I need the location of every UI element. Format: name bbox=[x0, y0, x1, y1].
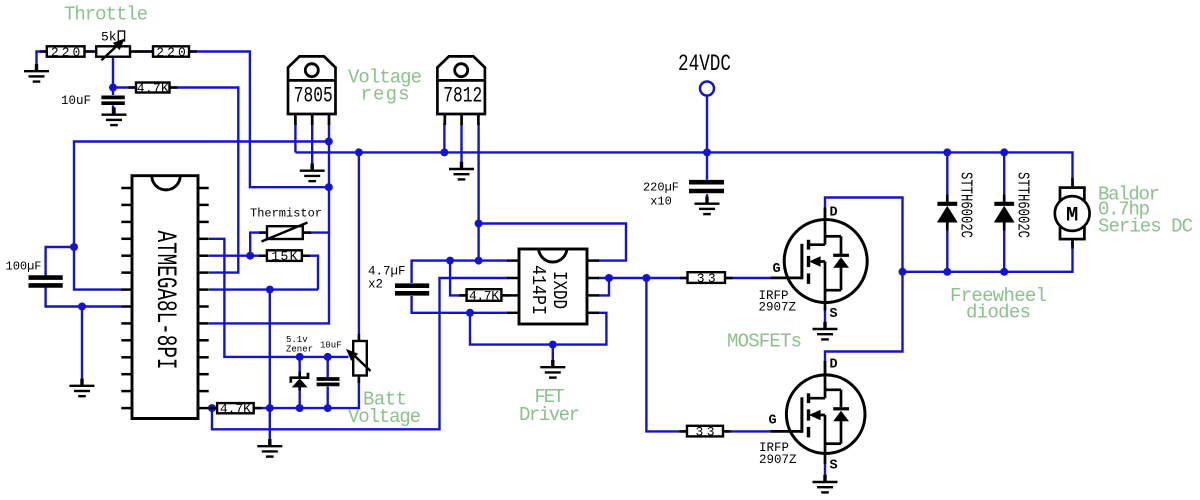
svg-text:2907Z: 2907Z bbox=[759, 453, 797, 467]
svg-text:IXDD414PI: IXDD414PI bbox=[527, 265, 570, 315]
svg-text:D: D bbox=[830, 358, 838, 373]
svg-text:100µF: 100µF bbox=[6, 260, 42, 274]
svg-text:2907Z: 2907Z bbox=[759, 301, 797, 315]
svg-text:220µF: 220µF bbox=[643, 181, 679, 195]
svg-text:Series DC: Series DC bbox=[1098, 216, 1193, 238]
svg-text:MOSFETs: MOSFETs bbox=[727, 331, 802, 353]
svg-text:220: 220 bbox=[156, 45, 186, 60]
svg-text:Zener: Zener bbox=[286, 345, 313, 355]
svg-text:15K: 15K bbox=[271, 249, 297, 264]
svg-text:10uF: 10uF bbox=[320, 341, 342, 351]
svg-text:4.7K: 4.7K bbox=[469, 289, 499, 304]
svg-text:7812: 7812 bbox=[443, 84, 482, 109]
svg-text:Throttle: Throttle bbox=[64, 4, 148, 26]
svg-text:STTH6002C: STTH6002C bbox=[957, 172, 976, 238]
svg-text:ATMEGA8L-8PI: ATMEGA8L-8PI bbox=[149, 231, 180, 370]
svg-text:5k: 5k bbox=[101, 30, 117, 45]
svg-text:S: S bbox=[830, 307, 838, 322]
svg-text:24VDC: 24VDC bbox=[678, 51, 731, 77]
svg-text:220: 220 bbox=[51, 45, 81, 60]
svg-text:5.1v: 5.1v bbox=[286, 335, 308, 345]
svg-text:Driver: Driver bbox=[519, 404, 580, 426]
svg-text:D: D bbox=[830, 206, 838, 221]
svg-text:4.7µF: 4.7µF bbox=[368, 265, 406, 279]
svg-text:regs: regs bbox=[361, 84, 410, 106]
svg-text:7805: 7805 bbox=[294, 84, 333, 109]
svg-text:10uF: 10uF bbox=[61, 94, 91, 108]
svg-text:x2: x2 bbox=[368, 278, 383, 292]
svg-text:diodes: diodes bbox=[966, 302, 1031, 324]
svg-text:4.7K: 4.7K bbox=[137, 81, 169, 96]
svg-text:M: M bbox=[1066, 205, 1078, 228]
svg-text:STTH6002C: STTH6002C bbox=[1014, 172, 1033, 238]
svg-text:G: G bbox=[769, 414, 777, 429]
svg-text:x10: x10 bbox=[650, 195, 672, 209]
svg-text:Voltage: Voltage bbox=[348, 406, 421, 428]
svg-text:S: S bbox=[830, 459, 838, 474]
svg-text:G: G bbox=[773, 262, 781, 277]
svg-text:Thermistor: Thermistor bbox=[250, 207, 322, 221]
svg-text:4.7K: 4.7K bbox=[220, 402, 251, 417]
